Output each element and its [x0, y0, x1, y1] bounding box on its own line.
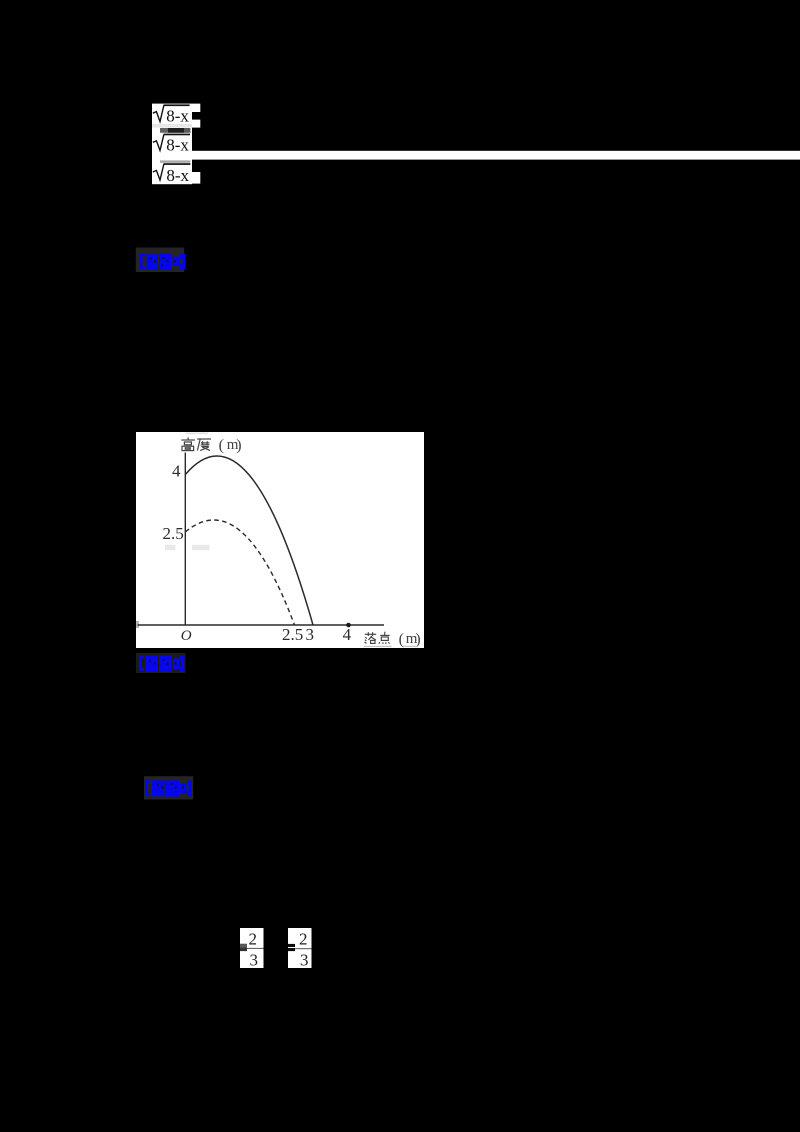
dashed curve — [185, 520, 294, 625]
gray smudges near 2.5 — [165, 545, 176, 550]
svg-text:3: 3 — [306, 625, 315, 644]
fraction image 1: =2/3 — [240, 928, 264, 968]
svg-text:): ) — [415, 631, 420, 648]
svg-text:(: ( — [219, 437, 224, 454]
svg-text:2: 2 — [299, 930, 308, 949]
svg-text:4: 4 — [172, 461, 181, 480]
left gray nub — [136, 621, 139, 628]
proofing underline under 落点（m） — [364, 646, 392, 647]
dot at x=4 — [346, 623, 351, 628]
svg-text:3: 3 — [300, 950, 309, 968]
top formula block: three sqrt(8-x) images + long white strip — [152, 103, 800, 185]
light gray band under row1 — [152, 124, 192, 128]
x axis — [138, 624, 385, 626]
svg-text:2: 2 — [249, 930, 258, 949]
solid curve — [185, 456, 313, 625]
svg-text:(: ( — [399, 631, 404, 648]
right nub row1 top — [192, 104, 200, 112]
svg-text:2.5: 2.5 — [282, 625, 303, 644]
chart image — [136, 432, 424, 648]
高度（m） label — [181, 437, 211, 450]
svg-text:): ) — [236, 437, 241, 454]
dark bar between row1 and row2 — [160, 128, 168, 133]
formula sqrt(8-x) row 3 — [164, 163, 191, 185]
blue label 2 (【详解】) — [136, 652, 188, 674]
svg-text:3: 3 — [250, 950, 259, 968]
formula sqrt(8-x) row 1 — [164, 104, 190, 125]
white column background — [152, 104, 192, 185]
svg-text:4: 4 — [343, 625, 352, 644]
right nub row3 — [192, 172, 200, 184]
formula sqrt(8-x) row 2 — [164, 134, 190, 155]
long white strip — [152, 151, 800, 160]
落点（m） label — [365, 632, 390, 644]
blue label 1 (【解析】) with dark gray background — [135, 247, 189, 273]
svg-text:8-x: 8-x — [166, 166, 189, 185]
svg-text:8-x: 8-x — [166, 107, 189, 126]
right nub row1 bottom — [192, 120, 200, 128]
svg-text:8-x: 8-x — [166, 135, 189, 154]
blue label 3 (【点睛】) with dark gray background — [143, 775, 195, 801]
svg-text:O: O — [181, 628, 192, 644]
svg-text:2.5: 2.5 — [163, 524, 184, 543]
fraction image 2: =2/3 — [288, 928, 312, 968]
gray band above row3 — [160, 160, 190, 162]
axis numbers — [163, 461, 352, 644]
faint top smudge — [186, 432, 208, 434]
y axis — [184, 453, 186, 626]
